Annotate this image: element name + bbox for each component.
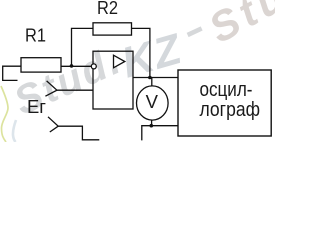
input terminal wire (left) xyxy=(3,66,21,80)
voltmeter stem top xyxy=(151,78,153,87)
voltmeter V1 circle xyxy=(137,86,169,120)
oscilloscope box xyxy=(178,70,271,136)
inverting input circle xyxy=(91,64,96,69)
voltmeter stem bottom xyxy=(151,120,153,126)
svg-text:Ег: Ег xyxy=(27,97,46,117)
wire R1 to op-amp inverting input xyxy=(61,65,91,67)
op-amp gain triangle xyxy=(114,55,125,68)
svg-text:R2: R2 xyxy=(97,0,118,18)
watermark text Stud.KZ - Stu xyxy=(8,0,296,124)
watermark corner arc yellow-green xyxy=(1,86,8,142)
wire voltmeter bottom to oscilloscope xyxy=(142,126,178,141)
switch S2 probe arrow xyxy=(48,117,58,132)
resistor R2 xyxy=(93,23,132,35)
wire S1 to non-inverting input xyxy=(57,89,93,91)
node junction output xyxy=(148,76,152,80)
watermark corner arc blue-gray xyxy=(13,120,16,142)
wire R2 right down to output node xyxy=(132,28,150,77)
svg-text:R1: R1 xyxy=(25,26,46,46)
wire op-amp output to oscilloscope xyxy=(133,77,178,79)
node junction voltmeter bottom xyxy=(150,124,154,128)
resistor R1 xyxy=(21,58,61,72)
wire junction up to R2 left xyxy=(72,28,94,66)
svg-text:лограф: лограф xyxy=(200,98,261,121)
node junction R1-R2 xyxy=(70,64,74,68)
wire S2 lower run xyxy=(58,126,99,140)
switch S1 probe arrow xyxy=(45,81,57,96)
svg-text:V: V xyxy=(146,91,159,112)
op-amp U1 body xyxy=(93,51,133,109)
